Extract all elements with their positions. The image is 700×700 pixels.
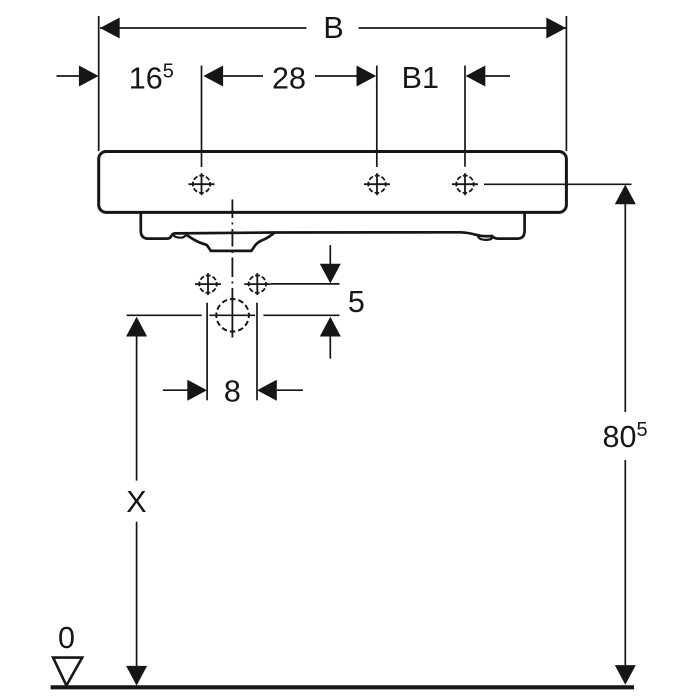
svg-text:8: 8 — [224, 375, 241, 409]
svg-text:X: X — [126, 485, 146, 519]
svg-text:5: 5 — [348, 285, 365, 319]
svg-text:B: B — [323, 11, 343, 45]
svg-text:805: 805 — [603, 419, 648, 454]
svg-text:0: 0 — [58, 621, 75, 655]
svg-text:165: 165 — [129, 61, 174, 96]
svg-text:B1: B1 — [402, 61, 439, 95]
svg-text:28: 28 — [272, 62, 306, 96]
